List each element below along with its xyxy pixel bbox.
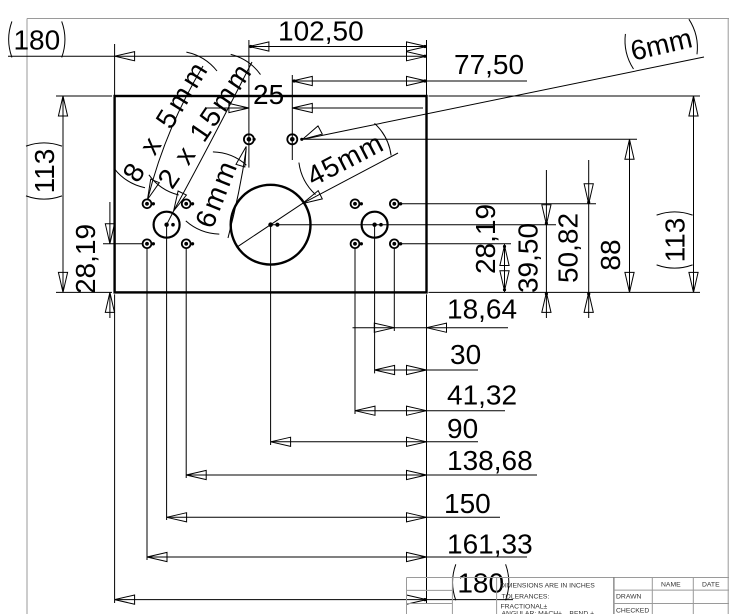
dim 88 line	[625, 139, 634, 292]
extension line top hole row right	[401, 203, 596, 205]
extension line big circle down	[270, 225, 272, 445]
title block headers text	[616, 582, 720, 614]
15mm hole right center marks	[372, 223, 382, 227]
extension line hole B row right	[304, 138, 637, 140]
dim 18,64 line	[353, 323, 509, 332]
svg-text:102,50: 102,50	[278, 16, 364, 47]
svg-text:6mm: 6mm	[627, 22, 695, 66]
big hole center marks	[268, 222, 279, 227]
svg-text:113: 113	[660, 218, 691, 263]
svg-text:28,19: 28,19	[70, 224, 101, 294]
svg-text:NAME: NAME	[661, 582, 681, 589]
label (6mm) left text	[186, 152, 247, 234]
title block frame	[407, 578, 729, 614]
extension line plate left edge top	[114, 44, 116, 95]
extension line plate bottom corner right	[429, 291, 701, 293]
sheet border left	[26, 19, 28, 614]
svg-text:77,50: 77,50	[454, 49, 524, 80]
label (2 x 15mm) leader	[167, 62, 252, 225]
extension line plate left edge bottom	[114, 294, 116, 603]
extension line bottom hole row right	[401, 243, 511, 245]
dim 25 line	[207, 103, 423, 112]
svg-text:50,82: 50,82	[553, 213, 584, 283]
dim 102,50 line	[249, 42, 427, 51]
svg-text:88: 88	[595, 239, 626, 270]
extension line plate top corner right	[429, 95, 701, 97]
dim 50,82 line	[584, 160, 593, 318]
svg-text:39,50: 39,50	[512, 223, 543, 293]
svg-text:138,68: 138,68	[447, 445, 533, 476]
extension line left 28,19 row	[103, 243, 143, 245]
5mm hole 3	[143, 239, 155, 248]
extension line hole col 138,68	[185, 248, 187, 478]
5mm hole 1	[143, 199, 155, 208]
dim 150 line	[167, 513, 500, 522]
sheet border right	[727, 19, 729, 614]
label (8 x 5mm) leader	[148, 66, 204, 200]
extension line circle center row right	[271, 224, 556, 226]
15mm hole left	[154, 212, 180, 238]
sheet border top	[27, 18, 729, 20]
extension line 15mm left circle down	[166, 225, 168, 520]
svg-text:90: 90	[447, 413, 478, 444]
extension line plate right edge bottom	[426, 294, 428, 603]
svg-text:CHECKED: CHECKED	[616, 608, 649, 614]
big hole 45mm	[231, 185, 311, 265]
label (6mm) top right text	[625, 19, 697, 69]
extension line plate bottom corner left	[56, 291, 112, 293]
svg-text:DRAWN: DRAWN	[616, 594, 642, 601]
dim (113) left text	[26, 143, 62, 199]
extension line plate right edge top	[426, 40, 428, 95]
extension line 15mm right circle down	[374, 225, 376, 374]
dim 28,19 left line	[105, 202, 114, 318]
label (8 x 5mm) text	[114, 52, 217, 188]
label (2 x 15mm) text	[149, 54, 261, 195]
extension line hole col 18,64	[393, 248, 395, 331]
svg-text:DIMENSIONS ARE IN INCHES: DIMENSIONS ARE IN INCHES	[500, 583, 595, 590]
extension line hole A vertical	[248, 40, 250, 168]
svg-text:FRACTIONAL±: FRACTIONAL±	[501, 604, 548, 611]
svg-text:18,64: 18,64	[447, 294, 517, 325]
5mm hole 8	[390, 239, 402, 248]
15mm hole left center marks	[164, 223, 174, 227]
dim 28,19 right line	[500, 244, 509, 293]
dim (180) bottom text	[453, 564, 509, 600]
label (6mm) left leader	[228, 147, 246, 239]
dim (113) left line	[58, 96, 67, 292]
label (45mm) text	[299, 123, 391, 194]
5mm hole 7	[351, 239, 363, 248]
6mm hole B	[287, 134, 303, 144]
dim (113) right text	[657, 212, 693, 268]
svg-text:28,19: 28,19	[470, 204, 501, 274]
5mm hole 6	[390, 199, 402, 208]
5mm hole 4	[182, 239, 194, 248]
6mm hole A	[244, 134, 256, 144]
dim (180) top text	[9, 21, 65, 57]
extension line hole col 161,33	[146, 248, 148, 560]
dim 138,68 line	[186, 470, 537, 479]
15mm hole right	[362, 212, 388, 238]
svg-text:30: 30	[450, 339, 481, 370]
dim 77,50 line	[292, 76, 527, 85]
dim 39,50 line	[542, 170, 551, 318]
svg-text:180: 180	[13, 24, 60, 55]
svg-text:TOLERANCES:: TOLERANCES:	[502, 594, 550, 601]
plate outline	[115, 96, 427, 292]
extension line hole col 41,32	[354, 248, 356, 414]
title block notes text	[500, 583, 595, 614]
extension line plate top corner left	[56, 95, 112, 97]
svg-text:25: 25	[253, 79, 284, 110]
dim (113) right line	[689, 96, 698, 292]
5mm hole 2	[182, 199, 194, 208]
svg-text:161,33: 161,33	[447, 529, 533, 560]
svg-text:DATE: DATE	[702, 582, 720, 589]
label (45mm) leader	[237, 153, 398, 247]
svg-text:41,32: 41,32	[447, 380, 517, 411]
svg-text:113: 113	[29, 149, 60, 194]
5mm hole 5	[351, 199, 363, 208]
svg-text:150: 150	[444, 488, 491, 519]
dim (180) top line	[8, 52, 427, 61]
label (6mm) top right leader	[303, 57, 705, 139]
extension line hole B vertical	[291, 75, 293, 160]
svg-text:ANGULAR: MACH± BEND ±: ANGULAR: MACH± BEND ±	[502, 611, 595, 614]
dim 30 line	[375, 365, 478, 374]
dim 161,33 line	[147, 552, 527, 561]
dim 90 line	[271, 437, 478, 446]
dim (180) bottom line	[115, 595, 513, 604]
dim 41,32 line	[355, 406, 505, 415]
